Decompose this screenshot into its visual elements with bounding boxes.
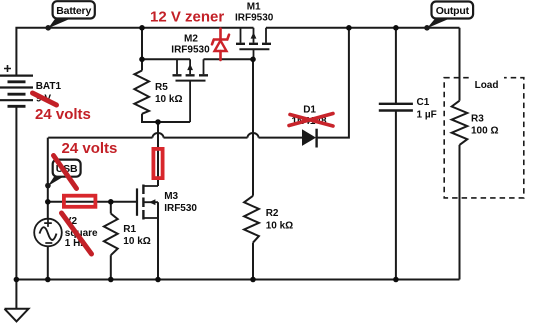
wire D1 row segment 1 [48,137,152,139]
wire M2 drain segment to node B [204,58,254,60]
resistor R1 [104,214,118,256]
wire node A vertical (V2 plus column) [47,138,49,219]
resistor R5 [134,71,149,114]
wire R5 branch from top rail [141,28,143,71]
annotation red rectangle on M3 drain wire [153,149,162,178]
junction M1 gate / M2 drain / R2 node [250,57,256,63]
svg-text:Output: Output [436,5,470,17]
svg-text:Battery: Battery [56,5,91,17]
wire output R3 branch top [459,28,461,101]
junction bottom rail / C1 [393,277,399,283]
svg-text:R3: R3 [471,113,484,124]
junction bottom rail / R2 [250,277,256,283]
wire R5 bottom to gate node wire [142,114,190,122]
wire C1 branch [395,28,397,104]
svg-text:IRF9530: IRF9530 [171,45,210,56]
svg-text:IRF9530: IRF9530 [235,13,274,24]
source V2 [34,219,62,247]
wire battery negative to bottom rail [15,106,17,279]
load dashed box [444,78,524,198]
junction top rail / C1 branch [393,25,399,31]
svg-text:1 µF: 1 µF [417,110,437,121]
resistor R3 [452,101,468,145]
label Load [470,75,504,91]
diode D1 [302,129,317,148]
junction bottom rail / V2 [45,277,51,283]
wire R1 top stub [110,202,112,214]
annotation strike through 9 V [33,93,57,105]
capacitor C1 [379,104,413,111]
svg-text:M1: M1 [247,1,261,12]
transistor M3 body arrow [149,199,155,205]
annotation strike through V2 labels [62,213,92,254]
svg-text:R5: R5 [155,82,168,93]
svg-text:24 volts: 24 volts [35,106,91,123]
wire V2 bottom [47,246,49,280]
wire top rail right segment [266,27,460,29]
callout USB [45,160,80,189]
junction R5 top node [139,57,145,63]
wire node B down to R2 [252,59,254,196]
wire M2 source segment [142,58,190,60]
wire R2 bottom [252,243,254,280]
svg-text:12 V zener: 12 V zener [150,8,224,25]
wire R1 bottom [110,255,112,279]
junction top rail / D1 branch [346,25,352,31]
wire hop over M3 drain column [153,133,164,138]
resistor R2 [244,196,259,243]
svg-text:100 Ω: 100 Ω [471,125,498,136]
annotation red rectangle on gate wire [64,196,96,207]
wire D1 row segment 2 [164,137,248,139]
transistor M3 IRF530 (N-MOSFET) [137,185,158,220]
annotation X over 1N4148 [289,114,333,127]
svg-text:D1: D1 [303,105,316,116]
annotation strike through USB [54,156,77,189]
wire hop over R2 column [248,133,259,138]
svg-text:R1: R1 [123,224,136,235]
junction bottom rail / M3 source [155,277,161,283]
wire R3 bottom [459,145,461,280]
junction bottom rail / battery-ground [14,277,20,283]
transistor M2 body arrow [187,64,193,70]
wire M3 drain column [157,122,159,186]
svg-text:24 volts: 24 volts [62,140,118,157]
junction bottom rail / R1 [108,277,114,283]
wire M3 source column [157,202,159,279]
transistor M1 body arrow [251,32,257,38]
callout Battery [45,1,94,30]
svg-text:BAT1: BAT1 [36,81,62,92]
battery BAT1 [0,65,33,106]
junction R5 bottom / M3 drain node [155,119,161,125]
transistor M1 IRF9530 (P-MOSFET) [236,28,271,60]
svg-text:10 kΩ: 10 kΩ [266,220,293,231]
wire gate line of M3 row [48,201,137,203]
wire D1 row segment 3 [259,137,303,139]
transistor M2 IRF9530 (P-MOSFET) [173,59,209,122]
wire C1 bottom [395,111,397,280]
svg-text:Load: Load [475,80,499,91]
junction V2 plus node [45,199,51,205]
callout Output [424,2,473,31]
svg-text:10 kΩ: 10 kΩ [155,94,182,105]
wire top rail left segment [16,28,253,76]
svg-text:M3: M3 [164,191,178,202]
ground [5,280,29,322]
wire D1 cathode to top rail [317,28,349,138]
junction R1 top / M3 gate node [108,199,114,205]
svg-text:M2: M2 [184,33,198,44]
svg-text:R2: R2 [266,208,279,219]
svg-text:IRF530: IRF530 [164,203,197,214]
svg-text:10 kΩ: 10 kΩ [123,236,150,247]
wire bottom rail [16,279,459,281]
junction top rail / R5 branch [139,25,145,31]
zener diode 12 V (red annotation) [212,29,229,61]
svg-text:C1: C1 [417,97,430,108]
